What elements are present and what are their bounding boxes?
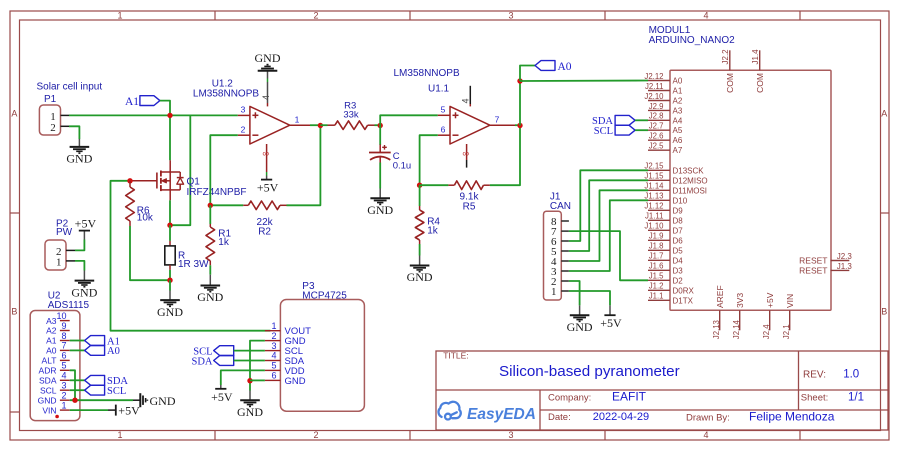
U2 pin 10 A3 (60, 320, 70, 322)
wire P3.5 VDD to +5V (221, 370, 265, 385)
svg-text:J2.2: J2.2 (721, 49, 730, 65)
P3 pin 3 SCL (265, 350, 281, 352)
U1.1 pin 7 lead (output) (490, 124, 515, 126)
svg-text:1: 1 (117, 430, 122, 440)
arduino pin J1.13 D10 (648, 199, 670, 201)
svg-text:A0: A0 (46, 346, 57, 356)
svg-text:GND: GND (255, 51, 281, 65)
svg-text:B: B (881, 306, 887, 316)
svg-text:3V3: 3V3 (735, 293, 745, 308)
svg-text:1: 1 (295, 114, 300, 124)
arduino pin J2.5 A7 (648, 149, 670, 151)
svg-text:A0: A0 (107, 346, 120, 357)
wire gate node to P3 VOUT (down + right) (111, 181, 271, 331)
svg-text:GND: GND (71, 285, 97, 299)
svg-text:J1.14: J1.14 (644, 182, 664, 191)
net flag SCL (P3.3) (214, 346, 234, 356)
resistor R6 10k (129, 181, 131, 187)
svg-text:J2.12: J2.12 (644, 72, 663, 81)
svg-text:A4: A4 (673, 116, 683, 125)
svg-text:D12MISO: D12MISO (673, 176, 708, 185)
power +5V (J1) (609, 305, 611, 315)
wire P3.6 GND (250, 379, 265, 381)
svg-text:A2: A2 (46, 326, 57, 336)
svg-text:D5: D5 (673, 246, 684, 255)
svg-text:R2: R2 (258, 226, 271, 237)
svg-text:7: 7 (495, 114, 500, 124)
svg-text:J1.2: J1.2 (649, 282, 664, 291)
junction node A1/P1.1 (167, 113, 172, 118)
svg-text:D9: D9 (673, 206, 684, 215)
wire node to Q1 drain (169, 115, 171, 160)
ground GND (Q1 source network) (169, 280, 171, 290)
svg-text:J1.1: J1.1 (649, 292, 664, 301)
U1.2 pin 4 (V+) (267, 103, 269, 106)
U1.1 pin 8 stub (466, 144, 468, 160)
arduino pin J2.12 A0 (648, 80, 670, 82)
svg-text:2022-04-29: 2022-04-29 (593, 411, 649, 423)
net flag A0 (535, 61, 555, 71)
U1.1 pin 6 lead (438, 134, 450, 136)
net flag SDA (U2) (85, 375, 105, 385)
svg-text:D7: D7 (673, 226, 684, 235)
svg-text:+5V: +5V (118, 403, 140, 417)
svg-text:J2.8: J2.8 (649, 112, 664, 121)
net flag A1 (U2) (85, 336, 105, 346)
svg-text:J1.11: J1.11 (645, 212, 664, 221)
svg-text:VIN: VIN (42, 405, 56, 415)
svg-text:VIN: VIN (785, 294, 795, 308)
junction U1.1 feedback node (417, 183, 422, 188)
svg-text:SCL: SCL (40, 385, 57, 395)
svg-text:ADR: ADR (39, 366, 57, 376)
wire U2.5 ADR to GND net (70, 370, 75, 400)
svg-text:Q1: Q1 (187, 176, 201, 187)
svg-text:ARDUINO_NANO2: ARDUINO_NANO2 (649, 35, 736, 46)
svg-text:D2: D2 (673, 276, 684, 285)
svg-text:Silicon-based pyranometer: Silicon-based pyranometer (499, 363, 680, 380)
NC dot below VIN (55, 415, 59, 419)
svg-text:33k: 33k (343, 109, 359, 120)
wire SDA to A4 (635, 119, 648, 121)
svg-text:6: 6 (271, 371, 276, 381)
svg-text:D11MOSI: D11MOSI (673, 186, 708, 195)
svg-text:D8: D8 (673, 216, 684, 225)
U2 pin 2 GND (60, 399, 70, 401)
arduino pin J2.9 A3 (648, 109, 670, 111)
svg-text:D3: D3 (673, 266, 684, 275)
U2 pin 3 SCL (60, 389, 70, 391)
svg-text:U1.1: U1.1 (428, 83, 450, 94)
junction gate/R6 node (127, 178, 132, 183)
wire P1.2 to GND (69, 126, 79, 139)
svg-text:2: 2 (313, 11, 318, 21)
svg-text:AREF: AREF (715, 285, 725, 308)
arduino pin J2.11 A1 (648, 90, 670, 92)
svg-text:D13SCK: D13SCK (673, 166, 705, 175)
U1.2 pin 3 lead (238, 114, 250, 116)
capacitor C 0.1u (379, 126, 381, 146)
svg-text:+5V: +5V (75, 217, 97, 231)
svg-text:J1.7: J1.7 (649, 252, 664, 261)
arduino pin J2.13 AREF (bottom) (719, 310, 721, 330)
svg-text:J2.6: J2.6 (649, 132, 664, 141)
svg-text:GND: GND (367, 203, 393, 217)
svg-text:+5V: +5V (211, 390, 233, 404)
svg-text:A0: A0 (558, 61, 572, 73)
svg-text:LM358NNOPB: LM358NNOPB (193, 89, 259, 100)
resistor R2 22k (243, 204, 248, 206)
svg-text:A1: A1 (46, 336, 57, 346)
P3 pin 6 GND (265, 379, 281, 381)
svg-text:R5: R5 (463, 201, 476, 212)
wire U2.8 to A1 flag (70, 340, 85, 342)
wire P3.2 GND down (250, 341, 265, 391)
svg-text:RESET: RESET (799, 265, 827, 275)
svg-text:GND: GND (150, 394, 176, 408)
EasyEDA logo (439, 402, 461, 420)
svg-text:CAN: CAN (550, 201, 571, 212)
svg-text:A: A (881, 108, 887, 118)
svg-text:GND: GND (237, 405, 263, 419)
arduino pin J2.7 A5 (648, 129, 670, 131)
power +5V (U1.2) (261, 179, 272, 181)
wire Q1 source to node (169, 200, 171, 225)
junction U1.1 output node (517, 123, 522, 128)
svg-text:1/1: 1/1 (848, 392, 864, 404)
title block (436, 351, 888, 430)
wire R bottom to ground node (169, 270, 171, 280)
net flag A0 (U2) (85, 346, 105, 356)
arduino pin J2.4 +5V (bottom) (769, 310, 771, 330)
transistor Q1 IRFZ44NPBF (130, 160, 184, 200)
wire SCL flag to P3.3 (234, 350, 265, 352)
svg-text:1k: 1k (427, 225, 439, 236)
wire P2.2 to +5V (75, 240, 84, 251)
arduino pin J2.6 A6 (648, 139, 670, 141)
svg-text:GND: GND (407, 270, 433, 284)
arduino pin J2.14 3V3 (bottom) (739, 310, 741, 330)
wire U2.7 to A0 flag (70, 349, 85, 351)
svg-text:8: 8 (61, 331, 66, 341)
svg-text:1: 1 (271, 321, 276, 331)
svg-text:P1: P1 (44, 94, 57, 105)
resistor R3 33k (320, 124, 327, 126)
svg-text:4: 4 (703, 11, 708, 21)
power +5V (P3) (220, 385, 222, 389)
wire R6 bottom to ground node (130, 226, 170, 280)
svg-text:COM: COM (755, 73, 765, 93)
svg-text:J1.10: J1.10 (644, 222, 664, 231)
wire 22k right to output node (287, 126, 321, 206)
svg-text:4: 4 (271, 351, 276, 361)
wire J1.3 to D10 (569, 200, 648, 271)
svg-text:EAFIT: EAFIT (612, 389, 647, 403)
U1.2 pin 2 lead (238, 134, 250, 136)
arduino pin J1.3 RESET (831, 269, 850, 271)
wire branch down to Q1 source node (170, 115, 190, 225)
svg-text:J1.9: J1.9 (649, 232, 664, 241)
pin 1 lead (61, 114, 70, 116)
P2 pin 1 lead (66, 260, 75, 262)
svg-text:J1.6: J1.6 (649, 262, 664, 271)
svg-text:A7: A7 (673, 146, 683, 155)
svg-text:3: 3 (241, 105, 246, 115)
svg-text:2: 2 (241, 124, 246, 134)
U1.2 pin 1 lead (output) (290, 124, 310, 126)
svg-text:5: 5 (441, 105, 446, 115)
svg-text:J2.3: J2.3 (837, 252, 853, 261)
svg-text:J2.14: J2.14 (732, 319, 741, 339)
svg-text:Sheet:: Sheet: (801, 393, 828, 404)
svg-text:GND: GND (285, 376, 306, 387)
wire P2.1 to GND (75, 261, 84, 271)
wire U1.1 output (515, 124, 520, 126)
ground GND (P1) (78, 139, 80, 147)
svg-text:SDA: SDA (191, 356, 212, 367)
svg-text:A6: A6 (673, 136, 683, 145)
svg-text:IRFZ44NPBF: IRFZ44NPBF (187, 187, 247, 198)
ground GND above U1.2 (258, 70, 278, 72)
wire U1.2 output (310, 124, 320, 126)
wire to A0 flag (520, 66, 535, 82)
svg-text:A: A (11, 108, 17, 118)
svg-text:2: 2 (61, 391, 66, 401)
resistor R4 1k (419, 185, 421, 206)
U1.1 pin 4 stub (469, 104, 471, 106)
P3 pin 4 SDA (265, 360, 281, 362)
svg-text:1: 1 (56, 257, 62, 269)
wire J1.2 to GND (569, 281, 580, 305)
U1.2 pin 8 (V-) to +5V (266, 144, 268, 172)
ground GND (R1) (209, 265, 211, 274)
arduino pin J1.14 D11MOSI (648, 189, 670, 191)
arduino pin J1.9 D6 (648, 239, 670, 241)
net flag A1 (140, 96, 160, 106)
arduino pin J1.7 D4 (648, 259, 670, 261)
svg-text:A5: A5 (673, 126, 683, 135)
svg-text:EasyEDA: EasyEDA (467, 406, 536, 423)
resistor R 1R 3W (169, 225, 171, 241)
ground GND (P2) (83, 271, 85, 281)
wire node up/right to U1.1 pin5 (380, 115, 438, 125)
svg-text:10: 10 (56, 311, 66, 321)
svg-text:A1: A1 (125, 96, 139, 108)
svg-text:D4: D4 (673, 256, 684, 265)
U1.1 pin 5 lead (438, 114, 450, 116)
net flag SDA (P3.4) (214, 356, 234, 366)
svg-text:TITLE:: TITLE: (443, 351, 469, 361)
wire SCL to A5 (635, 129, 648, 131)
svg-text:J1.8: J1.8 (649, 242, 664, 251)
wire U1.2 pin2 feedback (210, 135, 238, 205)
wire U2.2 GND net (70, 399, 133, 401)
junction R3/C node (378, 123, 383, 128)
svg-text:D1TX: D1TX (673, 296, 694, 305)
svg-text:5: 5 (271, 361, 276, 371)
arduino pin J1.12 D9 (648, 209, 670, 211)
svg-text:1k: 1k (218, 237, 230, 248)
net flag SCL (A5) (615, 125, 635, 135)
wire SDA flag to P3.4 (234, 360, 265, 362)
svg-text:J2.7: J2.7 (649, 122, 664, 131)
svg-text:1R 3W: 1R 3W (178, 259, 209, 270)
svg-text:+5V: +5V (257, 181, 279, 195)
U2 pin 6 ALT (60, 359, 70, 361)
U2 pin 8 A1 (60, 340, 70, 342)
wire output up to A0 branch (519, 81, 521, 126)
pin 2 lead (61, 125, 70, 127)
svg-text:REV:: REV: (803, 369, 826, 380)
svg-text:PW: PW (56, 227, 73, 238)
wire C to GND (379, 157, 381, 163)
arduino pin J1.4 COM (top) (759, 50, 761, 70)
junction U1.2 output node (318, 123, 323, 128)
svg-text:A3: A3 (46, 316, 57, 326)
arduino pin J1.15 D12MISO (648, 179, 670, 181)
arduino pin J2.3 RESET (831, 260, 850, 262)
net flag SDA (A4) (615, 115, 635, 125)
svg-text:GND: GND (157, 305, 183, 319)
svg-text:J1.12: J1.12 (644, 202, 663, 211)
svg-text:J2.9: J2.9 (649, 102, 664, 111)
arduino pin J2.15 D13SCK (648, 169, 670, 171)
junction ADR/GND (72, 398, 77, 403)
svg-text:A3: A3 (673, 106, 683, 115)
arduino pin J1.2 D0RX (648, 289, 670, 291)
power +5V (P2) (83, 231, 85, 240)
wire U2.4 to SDA flag (70, 379, 85, 381)
svg-text:SCL: SCL (594, 126, 613, 137)
svg-text:6: 6 (441, 124, 446, 134)
svg-text:GND: GND (197, 290, 223, 304)
svg-text:J1.3: J1.3 (837, 262, 853, 271)
svg-text:4: 4 (703, 430, 708, 440)
svg-text:J2.13: J2.13 (712, 320, 721, 339)
ground GND (P3) (249, 391, 251, 401)
svg-text:0.1u: 0.1u (393, 161, 412, 172)
ground GND flag (U2) (133, 399, 140, 401)
svg-text:3: 3 (508, 430, 513, 440)
svg-text:10k: 10k (137, 213, 154, 224)
svg-text:6: 6 (61, 351, 66, 361)
svg-text:+5V: +5V (600, 316, 622, 330)
wire A1 flag to node (160, 101, 170, 116)
svg-text:A2: A2 (673, 97, 683, 106)
U2 pin 9 A2 (60, 330, 70, 332)
svg-text:4: 4 (61, 371, 66, 381)
svg-text:4: 4 (261, 95, 271, 100)
P3 pin 1 VOUT (265, 330, 281, 332)
net flag SCL (U2) (85, 385, 105, 395)
arduino pin J1.10 D7 (648, 229, 670, 231)
svg-text:1: 1 (551, 286, 557, 298)
svg-text:1: 1 (117, 11, 122, 21)
svg-text:3: 3 (271, 341, 276, 351)
P3 pin 2 GND (265, 340, 281, 342)
svg-text:∞: ∞ (262, 148, 269, 159)
svg-text:3: 3 (508, 11, 513, 21)
wire J1.1 to +5V (569, 291, 610, 305)
wire P1.1 to U1.2 pin3 (69, 114, 238, 116)
svg-text:J1.15: J1.15 (644, 172, 664, 181)
power +5V (U2 VIN) (108, 409, 116, 411)
junction feedback node (208, 203, 213, 208)
svg-text:Date:: Date: (548, 412, 571, 423)
P3 pin 5 VDD (265, 369, 281, 371)
arduino pin J1.11 D8 (648, 219, 670, 221)
svg-text:Company:: Company: (548, 392, 591, 403)
svg-text:J2.15: J2.15 (644, 162, 664, 171)
resistor R5 9.1k (420, 184, 449, 186)
svg-text:J1.4: J1.4 (751, 49, 760, 65)
arduino pin J1.1 D1TX (648, 299, 670, 301)
arduino pin J2.8 A4 (648, 119, 670, 121)
ground GND (R4) (419, 244, 421, 256)
svg-text:GND: GND (38, 395, 57, 405)
svg-text:B: B (11, 306, 17, 316)
arduino pin J2.10 A2 (648, 100, 670, 102)
svg-text:J2.10: J2.10 (644, 92, 664, 101)
svg-text:J2.5: J2.5 (649, 142, 664, 151)
svg-text:COM: COM (725, 73, 735, 93)
svg-text:J1.13: J1.13 (644, 192, 663, 201)
wire R3 to C node (375, 124, 381, 126)
resistor R1 1k (209, 205, 211, 224)
svg-text:J2.4: J2.4 (762, 324, 771, 339)
svg-text:GND: GND (66, 152, 92, 166)
connector P1 (39, 105, 60, 135)
svg-text:GND: GND (567, 320, 593, 334)
svg-text:2: 2 (50, 122, 56, 134)
svg-text:+5V: +5V (765, 292, 775, 308)
svg-text:ALT: ALT (42, 356, 57, 366)
svg-text:A1: A1 (673, 87, 683, 96)
svg-text:7: 7 (61, 341, 66, 351)
wire branch to Arduino A0 (520, 80, 648, 83)
svg-text:SCL: SCL (107, 386, 126, 397)
svg-text:5: 5 (61, 361, 66, 371)
svg-text:1.0: 1.0 (843, 368, 859, 380)
svg-text:∞: ∞ (462, 148, 469, 159)
svg-text:A0: A0 (673, 77, 683, 86)
arduino pin J1.6 D3 (648, 269, 670, 271)
U2 pin 1 VIN (60, 409, 70, 411)
arduino pin J2.2 COM (top) (729, 50, 731, 70)
U2 pin 5 ADR (60, 369, 70, 371)
wire node to 22k left (210, 204, 243, 206)
wire J1.5 to D12MISO (569, 180, 648, 251)
svg-text:2: 2 (271, 331, 276, 341)
svg-text:SDA: SDA (39, 376, 57, 386)
svg-text:J2.11: J2.11 (645, 82, 664, 91)
junction P3 GND node (247, 378, 252, 383)
wire J1.4 to D11MOSI (569, 190, 648, 261)
svg-text:4: 4 (461, 98, 471, 103)
svg-text:1: 1 (61, 400, 66, 410)
svg-text:Drawn By:: Drawn By: (686, 412, 730, 423)
arduino pin J1.8 D5 (648, 249, 670, 251)
svg-text:J1.5: J1.5 (649, 272, 664, 281)
svg-text:D6: D6 (673, 236, 684, 245)
U2 pin 4 SDA (60, 379, 70, 381)
U2 pin 7 A0 (60, 349, 70, 351)
arduino pin J1.5 D2 (648, 279, 670, 281)
svg-text:2: 2 (313, 430, 318, 440)
svg-text:Solar cell input: Solar cell input (37, 81, 103, 92)
wire U2.3 to SCL flag (70, 389, 85, 391)
svg-text:Felipe Mendoza: Felipe Mendoza (749, 409, 835, 423)
